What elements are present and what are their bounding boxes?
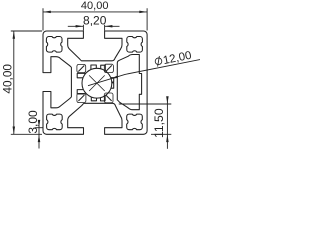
dim 40,00 left dimension line bbox=[13, 31, 15, 134]
dim 11,50 dimension line bbox=[166, 97, 168, 149]
dim 8,20 extension lines bbox=[83, 25, 104, 31]
dim text diameter 12,00 bbox=[154, 50, 192, 69]
svg-text:40,00: 40,00 bbox=[0, 64, 14, 94]
center cross diagonals bbox=[89, 75, 105, 91]
dim 8,20 dimension line tails bbox=[68, 25, 120, 27]
dim 40,00 top extension lines bbox=[43, 8, 147, 30]
bore channel bumps bbox=[91, 65, 96, 70]
core corner thread tabs with slits bbox=[77, 64, 86, 72]
dim 11,50 extension lines bbox=[119, 104, 172, 134]
right side internal cavity (closed face) bbox=[117, 55, 141, 110]
dim 3,00 dimension line bbox=[38, 120, 40, 148]
svg-text:8,20: 8,20 bbox=[83, 14, 107, 28]
leader line for diameter 12 bbox=[88, 60, 200, 86]
central bore circle, diameter 12 bbox=[82, 68, 112, 98]
corner screw channel bottom-right bbox=[127, 114, 143, 130]
dim 40,00 top dimension line bbox=[43, 11, 147, 13]
profile outer outline: three open T-slots, right side closed bbox=[43, 31, 147, 134]
corner screw channel bottom-left bbox=[47, 114, 63, 130]
dim 40,00 left extension lines bbox=[11, 31, 42, 134]
dim 3,00 extension line bbox=[35, 127, 43, 129]
dimension arrows bbox=[43, 11, 51, 14]
svg-text:40,00: 40,00 bbox=[81, 0, 109, 12]
svg-text:11,50: 11,50 bbox=[152, 108, 166, 138]
corner screw channel top-right bbox=[127, 37, 143, 53]
corner screw channel top-left bbox=[46, 37, 62, 53]
svg-text:3,00: 3,00 bbox=[26, 110, 40, 134]
